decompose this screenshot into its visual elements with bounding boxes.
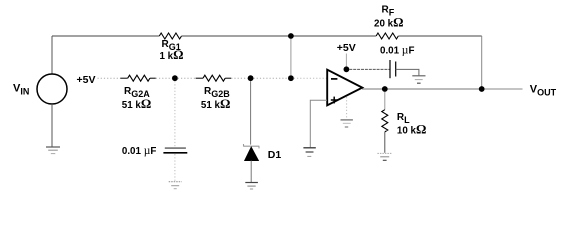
resistor R1 zigzag RG1: [159, 33, 181, 39]
label RG2A value 51 kOhm: [122, 96, 152, 111]
resistor RG2A: [120, 75, 156, 81]
ground below C1: [169, 182, 182, 189]
ground below VIN: [46, 147, 60, 154]
svg-text:+5V: +5V: [77, 74, 96, 86]
label RG2B: [204, 86, 230, 99]
wire op-amp output: [362, 88, 482, 90]
label RG1: [162, 39, 181, 52]
wire capacitor C1 branch lower dotted: [174, 154, 176, 181]
wire link top rail to summing node: [290, 39, 292, 75]
capacitor C1 0.01 uF plates: [163, 148, 187, 153]
label C2 value 0.01 uF: [380, 45, 414, 57]
label VIN: [13, 83, 29, 97]
wire VIN top vertical: [51, 36, 53, 74]
label RF value 20 kOhm: [374, 15, 404, 30]
node supply junction dot: [344, 66, 350, 72]
op-amp U1 plus sign: [331, 97, 338, 104]
ground below RL: [377, 153, 392, 160]
node junction dot C1 tap: [172, 75, 178, 81]
node output junction dot RL tap: [382, 86, 388, 92]
node summing junction dot: [288, 75, 294, 81]
wire bias rail dotted segment b: [156, 77, 172, 79]
svg-text:+5V: +5V: [337, 42, 356, 54]
label RL: [397, 112, 410, 125]
svg-text:0.01 µF: 0.01 µF: [122, 145, 156, 157]
resistor RF zigzag: [376, 33, 398, 39]
wire bias rail dotted segment e: [254, 77, 289, 79]
label D1: [268, 149, 282, 161]
wire RL lower lead: [384, 132, 386, 153]
label C1 value 0.01 uF: [122, 145, 156, 157]
label +5V bias rail: [77, 74, 96, 86]
wire inverting input dotted: [294, 77, 327, 79]
ground at op-amp negative supply: [341, 120, 353, 127]
wire VIN bottom vertical: [51, 104, 53, 147]
wire non-inverting input: [310, 100, 327, 147]
wire op-amp negative supply stub dotted: [346, 97, 348, 119]
label RF: [382, 4, 395, 17]
wire diode D1 branch lower: [250, 161, 252, 182]
wire bypass capacitor to ground: [396, 69, 419, 75]
node top rail junction dot: [288, 33, 294, 39]
wire RL upper lead: [384, 92, 386, 110]
label RG1 value 1 kOhm: [160, 47, 184, 62]
wire top rail right segment: [398, 35, 481, 37]
wire bias rail dotted segment d: [231, 77, 248, 79]
wire supply to bypass capacitor: [349, 68, 389, 70]
ground at non-inverting input: [303, 148, 315, 157]
wire bias rail dotted segment c: [178, 77, 196, 79]
label +5V op-amp supply: [337, 42, 356, 54]
svg-text:0.01 µF: 0.01 µF: [380, 45, 414, 57]
diode D1 anode triangle: [245, 147, 259, 161]
wire top rail middle segment: [182, 35, 377, 37]
svg-text:D1: D1: [268, 149, 282, 161]
diode D1 zener cathode bar: [243, 144, 259, 148]
label RL value 10 kOhm: [397, 122, 427, 137]
wire bias rail dotted segment a: [98, 77, 121, 79]
resistor RG2B: [196, 75, 232, 81]
ground below D1: [245, 183, 258, 190]
label RG2A: [124, 86, 150, 99]
wire feedback vertical drop: [481, 36, 483, 89]
wire capacitor C1 branch upper dotted: [174, 81, 176, 147]
ground at bypass capacitor: [412, 76, 425, 83]
label RG2B value 51 kOhm: [201, 96, 231, 111]
wire output to VOUT: [485, 88, 523, 90]
node junction dot D1 tap: [248, 75, 254, 81]
wire +5V supply stub: [345, 54, 347, 67]
resistor RL vertical zigzag: [382, 110, 388, 132]
wire top rail left segment: [52, 35, 159, 37]
source VIN circle: [37, 74, 67, 104]
label VOUT: [530, 84, 557, 98]
wire diode D1 branch upper: [250, 81, 252, 145]
node output corner junction dot: [479, 86, 485, 92]
op-amp U1 triangle: [327, 70, 362, 106]
capacitor C2 0.01 uF bypass plates: [390, 60, 396, 78]
op-amp U1 minus sign: [331, 78, 337, 80]
